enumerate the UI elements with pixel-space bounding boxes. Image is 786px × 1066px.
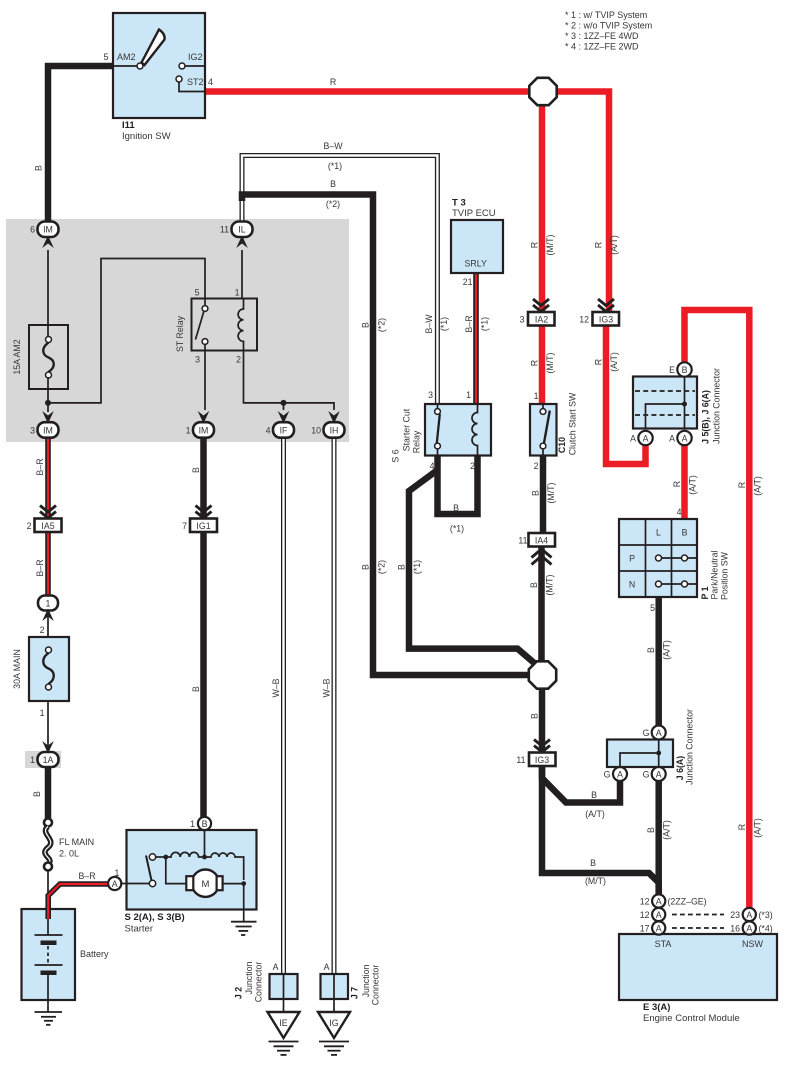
fusible link FL MAIN 2.0L [44, 819, 94, 871]
P1 contact N row [656, 581, 698, 587]
connector oval 6 IM [30, 222, 58, 249]
ECM pin 23 A (*3) [730, 908, 773, 921]
svg-text:W–B: W–B [322, 678, 332, 697]
svg-text:M: M [201, 879, 209, 890]
pin 4 ST2 [176, 76, 213, 92]
battery plates [35, 907, 63, 1012]
engine control module E3(A) [619, 934, 777, 1024]
junction connector J6(A) [607, 709, 695, 785]
connector 1 (round) [38, 596, 58, 622]
svg-text:16: 16 [730, 924, 740, 934]
ignition switch I11 [113, 13, 205, 142]
svg-text:1: 1 [46, 599, 51, 609]
svg-text:11: 11 [518, 536, 527, 546]
svg-text:A: A [112, 879, 118, 889]
svg-text:R: R [330, 77, 336, 87]
pin IG2 [179, 52, 205, 69]
wire B (*1) from starter cut relay pin 4 to pin 2 (U link) [438, 455, 478, 534]
dashed link pin 12 to 23 [672, 914, 724, 916]
svg-text:J 2: J 2 [234, 987, 244, 999]
starter solenoid coils [166, 830, 244, 884]
svg-text:(A/T): (A/T) [688, 475, 698, 495]
svg-text:(M/T): (M/T) [545, 574, 555, 595]
svg-text:B: B [191, 686, 201, 692]
svg-text:B: B [529, 582, 539, 588]
svg-text:TVIP ECU: TVIP ECU [452, 208, 496, 219]
junction connector J5(B) J6(A) [633, 368, 722, 444]
svg-text:IA4: IA4 [535, 536, 548, 546]
ignition lever [142, 30, 165, 66]
svg-text:R: R [737, 482, 747, 488]
connector 11 IA4 [518, 533, 555, 565]
svg-text:A: A [656, 897, 662, 907]
starter ground [231, 884, 257, 935]
svg-text:2: 2 [236, 355, 241, 365]
wire B (M/T) from clutch start switch pin 2 to IA4 [531, 455, 557, 533]
fuse 15A AM2 [12, 325, 68, 389]
svg-text:Clutch Start SW: Clutch Start SW [568, 392, 578, 455]
svg-text:(M/T): (M/T) [545, 234, 555, 255]
ECM pin 17 A [640, 921, 666, 934]
pin 5 AM2 [103, 52, 143, 69]
splice octagon node (starter signal join) [529, 661, 556, 688]
svg-text:* 1 : w/ TVIP System: * 1 : w/ TVIP System [565, 10, 647, 20]
svg-text:1: 1 [235, 288, 240, 298]
svg-text:Park/Neutral: Park/Neutral [710, 551, 720, 600]
svg-text:B–R: B–R [78, 871, 95, 881]
starter pin 1 A [108, 868, 121, 890]
ground IE [268, 999, 300, 1055]
svg-text:A: A [746, 910, 752, 920]
svg-text:(*2): (*2) [377, 318, 387, 332]
wire B (*2) from relay block IL to splice octagon [242, 179, 530, 675]
svg-text:A: A [273, 962, 279, 972]
svg-text:1: 1 [190, 819, 195, 829]
svg-text:N: N [629, 580, 635, 590]
svg-text:B–R: B–R [35, 559, 45, 576]
svg-text:Connector: Connector [254, 962, 264, 1003]
wire B from splice octagon to IG3 lower [530, 688, 543, 753]
wire B (A/T) from junction connector J6(A) pin G to ECM pin 12 [646, 781, 672, 895]
svg-text:(*1): (*1) [328, 161, 342, 171]
dashed link pin 17 to 16 [672, 927, 724, 929]
svg-text:IG3: IG3 [535, 755, 549, 765]
svg-text:4: 4 [266, 426, 271, 436]
svg-text:Starter Cut: Starter Cut [402, 408, 412, 451]
svg-text:(M/T): (M/T) [585, 876, 606, 886]
svg-text:1: 1 [534, 391, 539, 401]
svg-text:(A/T): (A/T) [609, 352, 619, 372]
svg-text:B: B [191, 467, 201, 473]
S6 coil [472, 404, 478, 455]
P1 contact P row [656, 555, 698, 561]
svg-text:B: B [591, 790, 597, 800]
svg-text:ST Relay: ST Relay [175, 315, 185, 352]
svg-text:R: R [530, 360, 540, 366]
connector oval 3 IM [30, 411, 58, 438]
S6 contact [435, 404, 441, 455]
svg-text:STA: STA [655, 939, 672, 949]
park/neutral position switch P1 [619, 507, 730, 613]
starter S2(A) S3(B) [125, 830, 257, 935]
battery ground [35, 1012, 63, 1025]
relay block (gray junction/relay box) [6, 219, 349, 442]
wire B (M/T) from IA4 to splice octagon [529, 547, 555, 662]
svg-text:6: 6 [30, 225, 35, 235]
svg-text:5: 5 [195, 288, 200, 298]
svg-text:(*1): (*1) [450, 524, 464, 534]
svg-text:1: 1 [30, 755, 35, 765]
svg-text:B: B [34, 165, 44, 171]
wire B from IG1 to starter pin 1 B [191, 532, 204, 817]
svg-text:B: B [682, 528, 688, 538]
wire R from IG3 to junction connector J5(B) pin A [594, 325, 646, 464]
svg-text:(*1): (*1) [412, 560, 422, 574]
svg-text:B: B [682, 365, 688, 375]
svg-text:S 6: S 6 [391, 449, 401, 462]
svg-text:IH: IH [330, 426, 339, 436]
svg-text:(M/T): (M/T) [545, 352, 555, 373]
svg-text:(A/T): (A/T) [752, 476, 762, 496]
svg-text:3: 3 [30, 426, 35, 436]
wire ST relay pin 3 to 1 IM [204, 351, 206, 410]
svg-text:AM2: AM2 [117, 52, 136, 62]
svg-text:(A/T): (A/T) [752, 818, 762, 838]
svg-text:E: E [669, 365, 675, 375]
wire B (A/T) from park/neutral switch pin 5 to junction connector J6(A) [646, 597, 672, 726]
svg-text:IM: IM [43, 225, 53, 235]
svg-text:A: A [617, 770, 623, 780]
svg-text:Junction Connector: Junction Connector [685, 709, 695, 785]
svg-text:A: A [656, 924, 662, 934]
svg-text:3: 3 [520, 315, 525, 325]
wire R (A/T) branch to IG3 [594, 235, 620, 255]
svg-text:15A AM2: 15A AM2 [12, 339, 22, 374]
svg-text:B: B [646, 827, 656, 833]
wire R from junction connector E(B) to ECM pin 23 [685, 310, 763, 908]
svg-text:(*1): (*1) [439, 317, 449, 331]
connector 11 IG3 lower [516, 740, 555, 767]
fuse 30A MAIN [12, 637, 69, 701]
svg-text:R: R [594, 359, 604, 365]
starter motor M [186, 870, 246, 897]
wire R (M/T) branch from splice to IA2 [530, 104, 556, 312]
TVIP ECU T3 [451, 198, 503, 288]
wire R (A/T) from junction connector A to park/neutral switch pin 4 [672, 445, 698, 519]
svg-text:P 1: P 1 [700, 586, 710, 599]
wire ST relay pin 2 to 4 IF / 10 IH [244, 351, 335, 410]
wire B from ignition AM2 to relay block pin 6 IM [34, 66, 114, 226]
svg-text:17: 17 [640, 924, 650, 934]
J5(B) pin A A left [630, 431, 653, 445]
svg-text:IA5: IA5 [41, 521, 54, 531]
svg-text:J 7: J 7 [350, 987, 360, 999]
svg-text:Position SW: Position SW [720, 551, 730, 600]
svg-text:12: 12 [640, 910, 650, 920]
wire B (M/T) from IG3 lower to ECM pin 12 [542, 765, 659, 895]
wire W-B from relay block 4 IF to junction connector J2 [271, 438, 284, 974]
starter pin 1 B [190, 817, 211, 830]
svg-text:SRLY: SRLY [465, 259, 487, 269]
svg-text:B–R: B–R [35, 458, 45, 475]
svg-text:5: 5 [103, 52, 108, 62]
svg-text:A: A [746, 924, 752, 934]
junction connector J7 [321, 962, 381, 1005]
svg-text:* 2 : w/o TVIP System: * 2 : w/o TVIP System [565, 21, 652, 31]
svg-text:(A/T): (A/T) [662, 640, 672, 660]
J6(A) pin G A bottom left [604, 767, 627, 781]
svg-text:L: L [656, 528, 661, 538]
svg-text:1: 1 [466, 390, 471, 400]
svg-text:2: 2 [534, 461, 539, 471]
svg-text:NSW: NSW [742, 939, 764, 949]
svg-text:R: R [737, 824, 747, 830]
svg-text:J 6(A): J 6(A) [675, 756, 685, 781]
svg-text:(*2): (*2) [326, 199, 340, 209]
svg-text:B: B [202, 819, 208, 829]
svg-text:B: B [361, 564, 371, 570]
svg-text:12: 12 [579, 315, 589, 325]
svg-text:5: 5 [650, 603, 655, 613]
ST relay coil [238, 299, 243, 351]
svg-text:A: A [669, 434, 675, 444]
svg-text:30A MAIN: 30A MAIN [12, 649, 22, 689]
svg-text:Starter: Starter [125, 924, 154, 935]
svg-text:B–W: B–W [323, 141, 343, 151]
clutch start switch C10 [530, 391, 578, 471]
connector 12 IG3 [579, 299, 619, 326]
svg-text:23: 23 [730, 910, 740, 920]
svg-text:IE: IE [279, 1018, 287, 1028]
svg-text:3: 3 [428, 390, 433, 400]
J6(A) pin G A top [643, 726, 666, 740]
svg-text:A: A [630, 434, 636, 444]
svg-text:G: G [643, 770, 650, 780]
svg-text:FL MAIN: FL MAIN [59, 837, 94, 847]
svg-text:Battery: Battery [80, 949, 109, 959]
svg-text:21: 21 [463, 277, 473, 287]
svg-text:Junction: Junction [244, 962, 254, 995]
wire from junction to ST relay pin 5 [48, 259, 205, 403]
svg-text:Connector: Connector [371, 965, 381, 1006]
svg-text:B: B [531, 490, 541, 496]
svg-text:B: B [590, 858, 596, 868]
svg-text:11: 11 [220, 225, 229, 235]
svg-text:A: A [324, 962, 330, 972]
legend notes [565, 10, 652, 52]
svg-text:IG1: IG1 [196, 521, 210, 531]
svg-text:IM: IM [199, 426, 209, 436]
svg-text:(*3): (*3) [759, 910, 773, 920]
wire B (*1) from starter cut relay pin 4 to splice octagon [397, 470, 537, 665]
svg-text:R: R [672, 481, 682, 487]
svg-text:IF: IF [280, 426, 288, 436]
svg-text:A: A [656, 770, 662, 780]
svg-text:W–B: W–B [271, 678, 281, 697]
ECM pin 16 A (*4) [730, 921, 773, 934]
svg-text:B: B [361, 322, 371, 328]
wire B from connector 1A to fusible link [32, 767, 48, 818]
svg-text:IG3: IG3 [599, 315, 613, 325]
svg-text:B–R: B–R [464, 315, 474, 332]
ECM pin 12 A 2ZZ-GE [640, 894, 707, 907]
svg-text:1: 1 [186, 426, 191, 436]
ground IG [318, 999, 350, 1055]
wire R from ignition ST2 to A/T branch (top red feed) [205, 77, 609, 312]
svg-text:R: R [594, 242, 604, 248]
svg-text:B: B [397, 564, 407, 570]
wire from fuse 30A MAIN to connector 1A [40, 689, 48, 752]
svg-text:B: B [453, 503, 459, 513]
ST relay [175, 288, 257, 365]
svg-text:(A/T): (A/T) [609, 235, 619, 255]
svg-text:(A/T): (A/T) [662, 820, 672, 840]
svg-text:ST2: ST2 [187, 77, 204, 87]
svg-text:1: 1 [115, 868, 120, 878]
wire B-R from fusible link to starter pin A and battery [48, 871, 108, 921]
svg-text:IL: IL [238, 225, 245, 235]
svg-text:Junction Connector: Junction Connector [712, 368, 722, 444]
svg-text:2: 2 [40, 625, 45, 635]
J6(A) pin G A bottom right [643, 767, 666, 781]
J5(B) pin A A right [669, 431, 692, 445]
wire from fuse to 3 IM with junction [45, 377, 51, 412]
svg-text:IG: IG [329, 1018, 338, 1028]
svg-text:(*4): (*4) [759, 924, 773, 934]
svg-text:B–W: B–W [424, 314, 434, 334]
wire B-R from IA5 to connector 1 [35, 532, 48, 596]
connector oval 10 IH [311, 411, 344, 438]
svg-text:G: G [604, 770, 611, 780]
svg-text:1: 1 [40, 708, 45, 718]
svg-text:C10: C10 [557, 437, 567, 453]
svg-text:(2ZZ–GE): (2ZZ–GE) [668, 897, 707, 907]
svg-text:IG2: IG2 [188, 52, 203, 62]
svg-text:A: A [656, 728, 662, 738]
svg-text:I11: I11 [122, 120, 135, 131]
svg-text:B: B [330, 179, 336, 189]
svg-text:2: 2 [27, 521, 32, 531]
wire from fusible link to battery [47, 870, 49, 936]
svg-text:A: A [656, 910, 662, 920]
wire B-W (*1) from relay block IL to starter cut relay pin 3 [242, 141, 449, 404]
connector 7 IG1 [182, 506, 217, 533]
svg-text:2. 0L: 2. 0L [59, 849, 79, 859]
wire B (A/T) from IG3 lower to junction connector J6(A) pin G [542, 765, 620, 819]
connector oval 11 IL [220, 222, 253, 249]
svg-text:2: 2 [470, 461, 475, 471]
svg-text:(A/T): (A/T) [585, 809, 605, 819]
connector oval 4 IF [266, 411, 294, 438]
wire R (M/T) from IA2 to clutch start switch pin 1 [530, 325, 556, 404]
junction connector J2 [234, 962, 298, 1003]
starter cut relay S6 [391, 390, 492, 471]
connector 3 IA2 [520, 299, 555, 326]
connector oval 1 IM [186, 411, 214, 438]
svg-text:IA2: IA2 [535, 315, 548, 325]
svg-text:Engine Control Module: Engine Control Module [643, 1013, 740, 1024]
svg-text:B: B [530, 713, 540, 719]
svg-text:7: 7 [182, 521, 187, 531]
svg-text:(*2): (*2) [377, 560, 387, 574]
wire B-R from relay block 3 IM to IA5 [35, 438, 48, 518]
svg-text:A: A [643, 434, 649, 444]
wire from 11 IL to ST relay pin 1 [241, 250, 243, 299]
starter solenoid switch [122, 854, 169, 887]
svg-text:(*1): (*1) [480, 317, 490, 331]
svg-text:B: B [646, 647, 656, 653]
svg-text:B: B [32, 791, 42, 797]
svg-text:A: A [682, 434, 688, 444]
svg-text:3: 3 [195, 355, 200, 365]
svg-text:S 2(A), S 3(B): S 2(A), S 3(B) [125, 912, 185, 923]
svg-text:Relay: Relay [412, 430, 422, 453]
svg-text:J 5(B), J 6(A): J 5(B), J 6(A) [701, 390, 711, 444]
svg-text:P: P [629, 554, 635, 564]
svg-text:(M/T): (M/T) [546, 482, 556, 503]
svg-text:E 3(A): E 3(A) [643, 1002, 670, 1013]
svg-text:11: 11 [516, 755, 525, 765]
wire from connector 1 to fuse 30A MAIN [40, 610, 48, 648]
C10 contact [540, 404, 550, 455]
svg-text:Ignition SW: Ignition SW [122, 131, 171, 142]
battery [22, 909, 110, 1000]
wire from 6 IM to fuse 15A AM2 [47, 250, 49, 338]
svg-text:* 3 : 1ZZ–FE 4WD: * 3 : 1ZZ–FE 4WD [565, 31, 639, 41]
J5(B) pin E B [669, 362, 692, 376]
ST relay contact [196, 299, 208, 351]
connector 1 1A [25, 741, 61, 768]
wire W-B from relay block 10 IH to junction connector J7 [322, 438, 335, 974]
svg-text:4: 4 [208, 77, 213, 87]
svg-text:10: 10 [311, 426, 321, 436]
svg-text:IM: IM [43, 426, 53, 436]
svg-text:G: G [643, 728, 650, 738]
connector 2 IA5 [27, 506, 62, 533]
wire B-R (*1) from TVIP ECU SRLY pin 21 to starter cut relay pin 1 [464, 274, 490, 405]
svg-text:R: R [530, 242, 540, 248]
svg-text:12: 12 [640, 897, 650, 907]
svg-text:4: 4 [430, 461, 435, 471]
svg-text:1A: 1A [43, 755, 54, 765]
wire B from relay block 1 IM to IG1 [191, 438, 204, 518]
svg-text:* 4 : 1ZZ–FE 2WD: * 4 : 1ZZ–FE 2WD [565, 42, 639, 52]
svg-text:4: 4 [677, 507, 682, 517]
ECM pin 12 A [640, 908, 666, 921]
svg-text:Junction: Junction [361, 965, 371, 998]
svg-text:T 3: T 3 [452, 198, 466, 209]
splice octagon node (ST2 red feed) [529, 78, 556, 105]
